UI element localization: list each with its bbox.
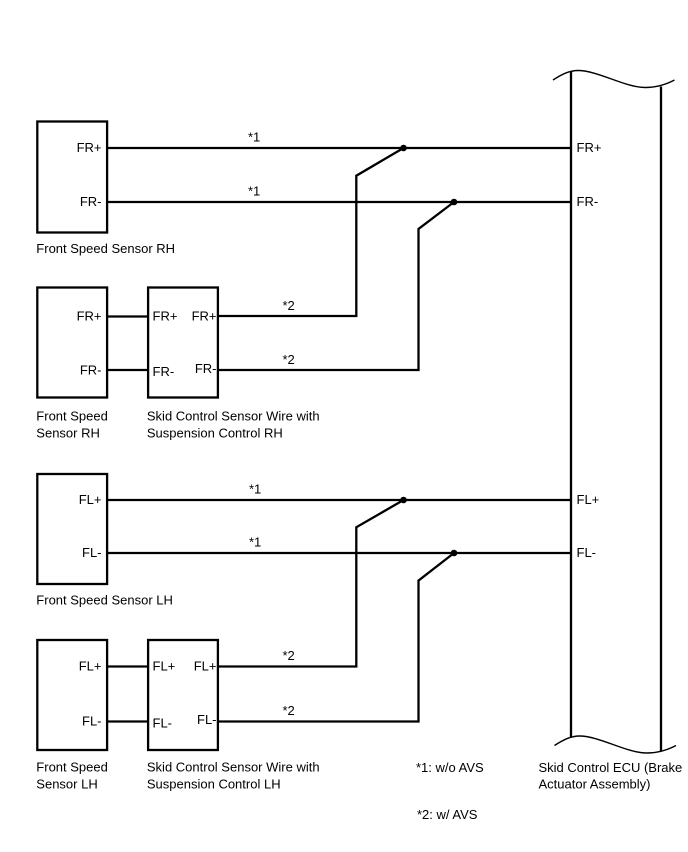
svg-text:*2: *2 — [283, 648, 295, 663]
svg-text:*2: *2 — [283, 352, 295, 367]
svg-text:FR-: FR- — [195, 361, 217, 376]
svg-text:Front Speed Sensor RH: Front Speed Sensor RH — [36, 241, 175, 256]
svg-text:Sensor RH: Sensor RH — [36, 426, 100, 441]
svg-text:FL-: FL- — [82, 714, 102, 729]
svg-text:Sensor LH: Sensor LH — [36, 777, 97, 792]
svg-text:Front Speed: Front Speed — [36, 760, 108, 775]
svg-text:Front Speed: Front Speed — [36, 409, 108, 424]
svg-text:FR+: FR+ — [77, 140, 102, 155]
svg-text:Skid Control Sensor Wire with: Skid Control Sensor Wire with — [147, 760, 320, 775]
svg-text:FR-: FR- — [153, 364, 175, 379]
svg-text:Skid Control Sensor Wire with: Skid Control Sensor Wire with — [147, 409, 320, 424]
svg-text:FL-: FL- — [82, 545, 102, 560]
svg-text:FL+: FL+ — [194, 659, 217, 674]
svg-text:FR-: FR- — [577, 194, 599, 209]
svg-text:*2: *2 — [283, 703, 295, 718]
svg-text:Suspension Control LH: Suspension Control LH — [147, 777, 281, 792]
svg-text:FR-: FR- — [80, 363, 102, 378]
svg-text:Actuator Assembly): Actuator Assembly) — [539, 777, 651, 792]
svg-text:FR+: FR+ — [153, 309, 178, 324]
svg-text:*1: *1 — [249, 482, 261, 497]
svg-text:FR+: FR+ — [192, 309, 217, 324]
svg-text:Skid Control ECU (Brake: Skid Control ECU (Brake — [539, 760, 683, 775]
svg-text:*1: w/o AVS: *1: w/o AVS — [416, 760, 484, 775]
svg-text:Front Speed Sensor LH: Front Speed Sensor LH — [36, 593, 173, 608]
svg-text:*2: *2 — [283, 298, 295, 313]
svg-text:*1: *1 — [249, 535, 261, 550]
svg-text:FL+: FL+ — [79, 492, 102, 507]
svg-text:Suspension Control RH: Suspension Control RH — [147, 426, 283, 441]
svg-text:*1: *1 — [248, 184, 260, 199]
svg-text:FR+: FR+ — [577, 140, 602, 155]
svg-text:FL-: FL- — [197, 712, 217, 727]
svg-text:FL+: FL+ — [153, 659, 176, 674]
svg-text:FR+: FR+ — [77, 309, 102, 324]
svg-text:FL+: FL+ — [79, 659, 102, 674]
svg-text:*1: *1 — [248, 130, 260, 145]
svg-text:FL+: FL+ — [577, 492, 600, 507]
svg-text:*2: w/ AVS: *2: w/ AVS — [417, 807, 478, 822]
svg-text:FR-: FR- — [80, 194, 102, 209]
svg-text:FL-: FL- — [577, 545, 597, 560]
svg-text:FL-: FL- — [153, 716, 173, 731]
